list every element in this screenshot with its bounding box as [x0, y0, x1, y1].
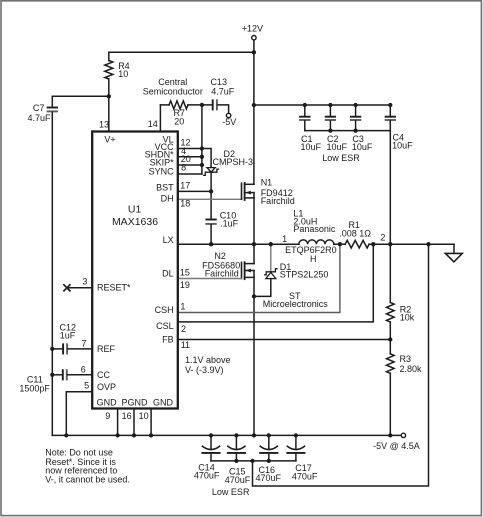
wire R4 top lead: [108, 52, 110, 60]
svg-text:10uF: 10uF: [301, 142, 322, 152]
capacitor C14: [210, 435, 212, 449]
svg-text:DH: DH: [161, 194, 174, 204]
wire D2 anode jog: [202, 149, 211, 168]
capacitor C3: [355, 105, 357, 116]
ground: [445, 253, 462, 262]
wire left rail from C7 down to -5V rail: [51, 112, 53, 435]
svg-text:16: 16: [122, 411, 132, 421]
svg-text:V+: V+: [104, 135, 115, 145]
svg-text:18: 18: [180, 199, 190, 209]
node C2 bottom: [328, 128, 332, 132]
node C1 top: [303, 103, 307, 107]
no-connect X mark: [64, 285, 70, 291]
resistor R7: [169, 101, 188, 109]
wire N2 source down to -5V rail: [253, 271, 255, 436]
svg-text:DL: DL: [162, 269, 174, 279]
wire C10 top lead: [210, 191, 212, 218]
wire CSH sense: [178, 244, 340, 312]
wire bottom capacitor rail: [211, 460, 296, 462]
svg-text:R3: R3: [400, 354, 412, 364]
svg-text:FB: FB: [162, 335, 174, 345]
svg-text:CC: CC: [97, 370, 110, 380]
node C15 top: [234, 433, 238, 437]
wire DH pin 18 gate lead: [178, 198, 242, 200]
capacitor C16: [268, 435, 270, 449]
svg-text:15: 15: [180, 268, 190, 278]
svg-text:1: 1: [282, 234, 287, 244]
wire C7 branch horizontal: [52, 95, 109, 97]
svg-text:Fairchild: Fairchild: [261, 196, 295, 206]
wire RESET pin 3 stub: [67, 287, 92, 289]
node N1 source/LX: [252, 242, 256, 246]
wire CC pin 6 stub: [52, 374, 62, 376]
svg-text:17: 17: [180, 181, 190, 191]
svg-text:SYNC: SYNC: [149, 166, 175, 176]
svg-text:.1uF: .1uF: [220, 219, 239, 229]
wire C4 column down to gnd node rail: [389, 121, 391, 244]
wire R1 right to ground: [369, 243, 454, 245]
svg-text:1.1V above: 1.1V above: [185, 355, 231, 365]
wire R7 to C13: [188, 104, 212, 106]
wire pin 8 stub: [178, 173, 202, 175]
svg-text:Central: Central: [158, 77, 187, 87]
node C10/LX: [209, 242, 213, 246]
svg-text:2: 2: [181, 324, 186, 334]
svg-text:H: H: [310, 254, 317, 264]
svg-text:470uF: 470uF: [256, 473, 282, 483]
wire R3 top lead: [389, 340, 391, 354]
node D1 cathode/LX: [269, 242, 273, 246]
svg-text:10: 10: [118, 69, 128, 79]
wire pin14 to R7: [160, 104, 169, 106]
capacitor C1: [304, 105, 306, 116]
node gnd/R2/C4: [388, 242, 392, 246]
node FB/R2/R3: [388, 337, 392, 341]
node VL pin20: [200, 163, 204, 167]
node R4/C7/pin13: [107, 94, 111, 98]
wire -5V bottom rail: [52, 434, 401, 436]
node C14 top: [209, 433, 213, 437]
svg-text:RESET*: RESET*: [97, 283, 131, 293]
node -5V terminal: [226, 113, 230, 117]
node R3/-5V rail: [388, 433, 392, 437]
svg-text:5: 5: [84, 381, 89, 391]
svg-text:8: 8: [181, 163, 186, 173]
svg-text:-5V: -5V: [222, 117, 236, 127]
node pin16/-5V rail: [132, 433, 136, 437]
node R4/top wire: [252, 50, 256, 54]
wire R2 top lead: [389, 244, 391, 302]
svg-text:V- (-3.9V): V- (-3.9V): [185, 365, 224, 375]
svg-text:10uF: 10uF: [327, 142, 348, 152]
inductor L1: [299, 240, 334, 244]
svg-text:9: 9: [105, 411, 110, 421]
svg-text:Panasonic: Panasonic: [293, 224, 336, 234]
wire LX rail left segment: [178, 243, 299, 245]
node BST/D2/C10: [209, 189, 213, 193]
svg-text:13: 13: [99, 120, 109, 130]
svg-text:+12V: +12V: [242, 24, 263, 34]
wire FB: [178, 339, 390, 341]
node L1/R1/CSH: [338, 242, 342, 246]
node C17 top: [294, 433, 298, 437]
svg-text:3: 3: [82, 277, 87, 287]
node N2 column/-5V rail: [252, 433, 256, 437]
svg-text:BST: BST: [156, 183, 174, 193]
svg-text:6: 6: [81, 364, 86, 374]
wire R3 bottom lead: [389, 373, 391, 435]
capacitor C10: [206, 219, 215, 221]
wire D1 anode to N2 source node: [254, 279, 271, 297]
capacitor C15: [235, 435, 237, 449]
node C15 bottom: [234, 459, 238, 463]
wire R2 bottom lead: [389, 322, 391, 340]
wire C7 top lead: [51, 96, 53, 107]
svg-text:CSL: CSL: [156, 321, 174, 331]
wire pin 14 stub up: [159, 105, 161, 132]
wire CSL sense: [178, 244, 373, 322]
node R7/C13/VL: [200, 103, 204, 107]
node pin9/-5V rail: [115, 433, 119, 437]
diode D1: [265, 269, 277, 275]
node +12V terminal: [252, 36, 256, 40]
wire top horizontal to R4: [109, 51, 254, 53]
svg-text:Fairchild: Fairchild: [205, 269, 239, 279]
wire OVP pin 5: [66, 392, 92, 436]
svg-text:10k: 10k: [400, 313, 415, 323]
capacitor C17: [295, 435, 297, 449]
svg-text:OVP: OVP: [97, 382, 116, 392]
capacitor C7: [48, 107, 57, 109]
wire gnd return loop: [253, 244, 429, 486]
node C16 bottom: [267, 459, 271, 463]
svg-text:14: 14: [148, 119, 158, 129]
node VL pin12: [200, 146, 204, 150]
node +12V/cap rail: [252, 103, 256, 107]
svg-text:10: 10: [139, 411, 149, 421]
node OVP/-5V rail: [64, 433, 68, 437]
svg-text:C7: C7: [33, 103, 45, 113]
wire ground drop: [453, 244, 455, 253]
node VL pin4: [200, 155, 204, 159]
resistor R3: [387, 354, 395, 374]
svg-text:LX: LX: [163, 235, 174, 245]
capacitor C13: [212, 100, 214, 109]
svg-text:U1: U1: [128, 204, 142, 216]
svg-text:1500pF: 1500pF: [19, 384, 50, 394]
node REF/left rail: [50, 347, 54, 351]
capacitor C11: [62, 370, 64, 379]
svg-text:.008 1Ω: .008 1Ω: [339, 228, 371, 238]
svg-text:CMPSH-3: CMPSH-3: [213, 157, 254, 167]
svg-text:2: 2: [380, 233, 385, 243]
wire capacitor bottom rail: [305, 130, 391, 132]
svg-text:STPS2L250: STPS2L250: [280, 270, 329, 280]
wire top capacitor rail: [254, 104, 390, 106]
wire D2 cathode to BST: [210, 172, 212, 191]
svg-text:10uF: 10uF: [352, 142, 373, 152]
capacitor C12: [62, 344, 64, 353]
node CC/left rail: [50, 373, 54, 377]
node pin10/-5V rail: [149, 433, 153, 437]
node loop/cap bottom rail: [250, 459, 254, 463]
node D1 anode/N2 source: [252, 294, 256, 298]
wire BST pin 17 stub: [178, 190, 211, 192]
svg-text:4.7uF: 4.7uF: [27, 113, 51, 123]
svg-text:N1: N1: [261, 178, 273, 188]
wire DL pin 15 gate lead: [178, 278, 242, 280]
node gnd/loop: [426, 242, 430, 246]
transistor N1: [241, 183, 243, 199]
svg-text:2.80k: 2.80k: [400, 364, 423, 374]
wire pin 12 stub: [178, 148, 202, 150]
resistor R2: [387, 303, 395, 323]
resistor R1: [345, 240, 369, 248]
node C3 top: [353, 103, 357, 107]
node C4 top: [388, 103, 392, 107]
wire pin 4 stub: [178, 156, 202, 158]
wire C10 bottom lead to LX rail: [210, 225, 212, 245]
svg-text:REF: REF: [97, 344, 116, 354]
svg-text:Microelectronics: Microelectronics: [263, 299, 329, 309]
svg-text:Low ESR: Low ESR: [322, 153, 360, 163]
node R1/CSL: [371, 242, 375, 246]
transistor N2: [241, 262, 243, 278]
svg-text:CSH: CSH: [155, 305, 174, 315]
svg-text:470uF: 470uF: [225, 475, 251, 485]
wire +12V vertical down to N1 drain: [253, 40, 255, 184]
svg-text:7: 7: [81, 339, 86, 349]
svg-text:C13: C13: [210, 77, 227, 87]
svg-text:-5V @ 4.5A: -5V @ 4.5A: [373, 441, 420, 451]
resistor R4: [105, 61, 113, 80]
wire GND pin 10 stub: [150, 409, 152, 436]
capacitor C2: [329, 105, 331, 116]
wire REF pin 7 stub: [52, 348, 62, 350]
svg-text:1uF: 1uF: [60, 331, 76, 341]
wire PGND pin 16 stub: [133, 409, 135, 436]
svg-text:Low ESR: Low ESR: [212, 487, 250, 497]
node C16 top: [267, 433, 271, 437]
svg-text:4.7uF: 4.7uF: [211, 87, 235, 97]
wire C13 to -5V terminal: [218, 105, 229, 113]
wire N1 source down to LX rail: [253, 193, 255, 245]
wire N2 drain from LX rail: [253, 244, 255, 263]
wire VL vertical bus: [201, 105, 203, 174]
wire pin 20 stub: [178, 164, 202, 166]
svg-text:20: 20: [174, 117, 184, 127]
op-amp U1 IC box: [92, 132, 178, 409]
capacitor C4: [389, 105, 391, 116]
svg-text:GND: GND: [153, 398, 174, 408]
wire GND pin 9 stub: [117, 409, 119, 436]
wire D1 cathode from LX rail: [270, 244, 272, 271]
svg-text:19: 19: [180, 280, 190, 290]
svg-text:V-, it cannot be used.: V-, it cannot be used.: [45, 474, 130, 484]
svg-text:10uF: 10uF: [392, 140, 413, 150]
svg-text:Semiconductor: Semiconductor: [143, 87, 203, 97]
svg-text:GND: GND: [97, 398, 118, 408]
svg-text:11: 11: [181, 340, 190, 350]
svg-text:PGND: PGND: [121, 398, 148, 408]
svg-text:470uF: 470uF: [292, 472, 318, 482]
svg-text:1: 1: [180, 302, 185, 312]
wire R4 bottom to pin 13: [108, 79, 110, 132]
svg-text:MAX1636: MAX1636: [112, 216, 158, 228]
diode D2: [207, 168, 215, 173]
node C2 top: [328, 103, 332, 107]
svg-text:470uF: 470uF: [194, 471, 220, 481]
wire L1 to R1: [334, 243, 345, 245]
node -5V output terminal: [401, 433, 405, 437]
node C3 bottom: [353, 128, 357, 132]
